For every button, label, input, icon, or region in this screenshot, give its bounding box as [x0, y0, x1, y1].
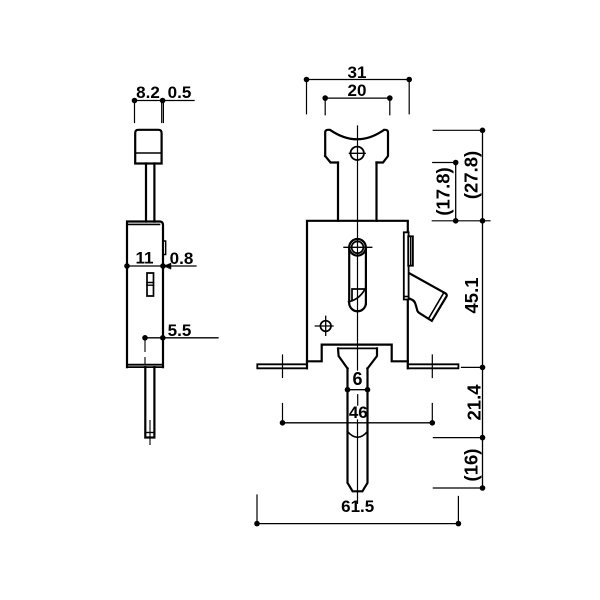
svg-text:20: 20 [348, 81, 367, 100]
left view cap inner line [136, 152, 162, 154]
front cap saddle [325, 130, 388, 163]
latch lever [407, 272, 447, 321]
svg-text:(16): (16) [461, 449, 482, 482]
keeper plate bottom double line [404, 296, 409, 298]
front neck [338, 163, 377, 221]
dim 46 ext lines [283, 355, 433, 423]
front grommet double circle [349, 239, 366, 256]
svg-text:45.1: 45.1 [461, 277, 482, 313]
front body outline [307, 221, 408, 368]
dim 31 ext lines [307, 80, 410, 114]
dim 61.5 ext lines [257, 495, 458, 524]
left view body bottom double line [127, 365, 163, 367]
keeper plate right column [408, 236, 413, 265]
front center line [357, 126, 359, 503]
front tongue bend curve [348, 432, 368, 438]
left view upper stem [146, 164, 154, 222]
svg-text:8.2: 8.2 [136, 83, 160, 102]
dim 20 line [325, 97, 390, 99]
front plate bottom line [338, 347, 377, 349]
dim 20 ext lines [325, 99, 390, 115]
dim 8.2/0.5 line [135, 100, 195, 102]
svg-text:(17.8): (17.8) [433, 167, 454, 215]
left view lower rod [145, 367, 154, 437]
left view rod crossbar [145, 432, 154, 434]
svg-text:6: 6 [352, 369, 362, 389]
front slot flag detail [349, 287, 366, 301]
dim 61.5 line [257, 523, 458, 525]
left view body [127, 222, 163, 368]
svg-text:21.4: 21.4 [464, 384, 485, 421]
dim 6 line [348, 389, 368, 391]
dim 31 line [307, 79, 410, 81]
left view body top inner line [127, 223, 160, 225]
dim 5.5 dashed ext [144, 340, 146, 365]
front tongue [348, 369, 368, 492]
dim 0.8 arrow [164, 263, 171, 269]
front right flange bar [408, 364, 459, 368]
right chain extension lines [432, 130, 490, 488]
front view texts [341, 63, 484, 516]
left view texts [136, 83, 194, 340]
dim 5.5 line [145, 337, 218, 339]
latch lever inner line [429, 292, 444, 318]
dim 11/0.8 line [127, 265, 196, 267]
svg-text:11: 11 [136, 249, 154, 268]
svg-text:0.5: 0.5 [168, 83, 192, 102]
left view cap [135, 130, 161, 164]
left view right edge protrusion 0.8 [163, 241, 166, 255]
svg-text:(27.8): (27.8) [461, 151, 482, 199]
front cap crosshair circle [351, 147, 364, 160]
svg-text:46: 46 [349, 403, 368, 422]
svg-text:31: 31 [348, 63, 367, 82]
svg-text:61.5: 61.5 [341, 497, 374, 516]
dim 46 line [283, 422, 433, 424]
left view inner slot detail [147, 273, 154, 296]
front small crosshair [320, 321, 331, 332]
svg-text:0.8: 0.8 [170, 249, 194, 268]
keeper plate left strip [404, 232, 409, 299]
front body bottom step [307, 345, 408, 362]
dim dots left view [124, 98, 166, 341]
front left flange bar [257, 364, 307, 368]
front funnel sides [338, 348, 377, 368]
front slot [349, 249, 366, 311]
dim dots front view [254, 77, 485, 527]
dim 8.2 ext lines [135, 101, 164, 123]
left view rod center line [149, 421, 151, 445]
svg-text:5.5: 5.5 [168, 321, 192, 340]
right chain dim verticals [456, 130, 483, 488]
